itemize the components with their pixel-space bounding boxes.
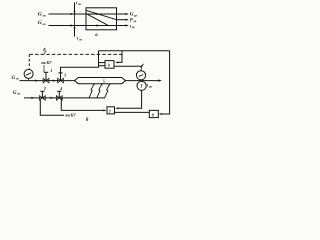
sensor T (temperature sensor on outlet) bbox=[137, 81, 146, 90]
valve 1 (water control valve) bbox=[43, 78, 49, 83]
wire branch into block 6 from overhead line bbox=[118, 51, 122, 63]
wire output arrow Gur bbox=[117, 13, 127, 15]
node label b (dashed boundary designation) bbox=[43, 49, 46, 54]
wire through-line 1 inside block a bbox=[86, 13, 117, 15]
svg-text:пв: пв bbox=[78, 2, 82, 6]
svg-text:G: G bbox=[38, 11, 42, 17]
wire block 6 left-side links to riser bbox=[99, 62, 106, 64]
wire cross-coupling diagonal 1 bbox=[86, 10, 117, 19]
svg-text:ур: ур bbox=[133, 13, 137, 17]
svg-text:G: G bbox=[12, 75, 16, 81]
wire T sensor to block 7 bbox=[118, 90, 142, 108]
valve 4 (steam valve) bbox=[56, 96, 62, 101]
svg-text:ур: ур bbox=[133, 19, 137, 23]
svg-text:от КУ: от КУ bbox=[65, 114, 76, 118]
svg-text:ур: ур bbox=[148, 84, 152, 88]
block 7 (temperature regulator) bbox=[107, 107, 115, 114]
svg-text:ур: ур bbox=[131, 25, 135, 29]
svg-text:1: 1 bbox=[50, 68, 52, 73]
valve 3 (water control valve) bbox=[58, 78, 64, 83]
wire valve 3 control path up and over bbox=[61, 51, 99, 73]
svg-text:4: 4 bbox=[59, 86, 62, 91]
wire outlet steam pipe with arrow bbox=[126, 80, 159, 82]
svg-text:б: б bbox=[86, 118, 89, 122]
wire block 6 output to sensor junction bbox=[114, 65, 136, 67]
block 8 (pressure regulator) bbox=[149, 110, 158, 117]
svg-text:от КУ: от КУ bbox=[41, 61, 52, 65]
svg-text:G: G bbox=[130, 12, 134, 18]
wire dashed boundary left drop to pump bbox=[28, 54, 30, 68]
node tur label (outlet temperature) bbox=[147, 83, 152, 89]
wire dashed boundary top edge bbox=[30, 53, 124, 55]
block a (object box, top diagram) bbox=[86, 8, 117, 30]
node Gov label (bottom diagram, water line) bbox=[12, 75, 20, 81]
valve 2 (steam valve) bbox=[40, 96, 46, 101]
svg-text:2: 2 bbox=[43, 86, 46, 91]
wire input line 1 bbox=[49, 13, 87, 15]
wire output arrow tur bbox=[117, 25, 127, 27]
svg-text:пе: пе bbox=[17, 92, 21, 96]
sensor P (pressure sensor on outlet) bbox=[136, 71, 145, 80]
svg-text:ов: ов bbox=[43, 22, 47, 26]
wire ot KU drop from valve 2 bbox=[40, 100, 64, 115]
wire link block 7 to block 8 bbox=[115, 111, 150, 113]
wire spray connection 1 into cooler bbox=[89, 84, 94, 98]
svg-text:G: G bbox=[13, 90, 17, 96]
wire input line 2 bbox=[49, 25, 87, 27]
wire spray connection 2 into cooler bbox=[97, 84, 102, 98]
svg-text:G: G bbox=[38, 20, 42, 26]
svg-text:7: 7 bbox=[109, 109, 112, 114]
wire steam pipe (lower line, bottom diagram) bbox=[24, 97, 105, 99]
svg-text:ов: ов bbox=[79, 38, 83, 42]
node Gpv label (top diagram input 1) bbox=[38, 11, 47, 17]
wire overhead control line bbox=[99, 50, 170, 52]
pump (injection water pump) bbox=[24, 69, 33, 78]
wire spray connection 3 into cooler bbox=[105, 84, 110, 98]
svg-text:3: 3 bbox=[63, 72, 66, 77]
node tpv input arrow (from top) bbox=[74, 3, 76, 13]
wire water pipe (upper line, bottom diagram) bbox=[20, 80, 76, 82]
wire output arrow Pur bbox=[117, 19, 127, 21]
steam cooler element 5 bbox=[75, 78, 126, 84]
svg-text:пв: пв bbox=[43, 13, 47, 17]
node Gov label (top diagram input 2) bbox=[38, 20, 46, 26]
wire ot KU link to valve 1 stem bbox=[43, 65, 45, 72]
wire right-hand control drop bbox=[162, 51, 170, 114]
svg-text:5: 5 bbox=[103, 78, 105, 83]
wire feed from valve 4 to block 7 bbox=[61, 98, 104, 111]
node tov input arrow (from bottom) bbox=[74, 27, 76, 37]
svg-text:д: д bbox=[108, 63, 110, 68]
wire sensor stub above P with arrow bbox=[136, 65, 140, 67]
svg-text:а: а bbox=[95, 33, 98, 38]
svg-text:8: 8 bbox=[152, 113, 154, 118]
block 6 (transducer box) bbox=[105, 61, 114, 69]
node Gpe label (bottom diagram, steam line) bbox=[13, 90, 21, 96]
wire through-line 2 inside block a bbox=[86, 25, 117, 27]
svg-text:ов: ов bbox=[16, 77, 20, 81]
svg-text:Т: Т bbox=[140, 84, 143, 89]
wire cross-coupling diagonal 2 bbox=[87, 14, 109, 25]
